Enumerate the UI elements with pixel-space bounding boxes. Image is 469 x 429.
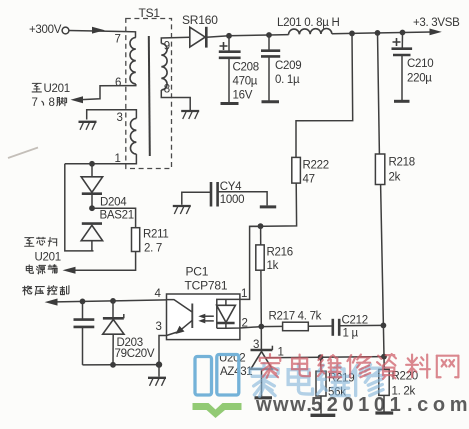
svg-text:PC1: PC1 <box>186 265 209 279</box>
zener D203 79C20V <box>103 301 155 365</box>
node rail/R218 branch <box>375 30 381 36</box>
ground bar C210 <box>394 100 410 103</box>
capacitor CY4 1000 <box>211 181 244 207</box>
wire 稳压控制 line to PC1 pin 4 <box>45 299 167 306</box>
svg-text:C209: C209 <box>275 60 301 72</box>
svg-text:8: 8 <box>49 97 55 109</box>
wire node to ground <box>158 365 160 377</box>
node ref/divider <box>381 354 387 360</box>
wire CY4 left to ground <box>182 192 211 205</box>
svg-text:1: 1 <box>278 347 284 359</box>
svg-text:470µ: 470µ <box>233 76 258 88</box>
svg-text:2k: 2k <box>389 172 401 184</box>
node R216/R222/pin1 junction <box>258 223 264 229</box>
inductor L201 0.8uH <box>277 17 340 35</box>
node D203/bottom rail <box>110 362 116 368</box>
svg-text:8: 8 <box>164 84 170 96</box>
svg-text:47: 47 <box>303 174 315 186</box>
resistor R219 56k <box>316 357 354 398</box>
node +300V input terminal <box>29 24 69 36</box>
svg-text:1 µ: 1 µ <box>343 328 359 340</box>
wire U202 ref to divider <box>266 357 384 358</box>
svg-text:7: 7 <box>32 97 38 109</box>
node D204 midpoint <box>89 205 95 211</box>
svg-text:U201: U201 <box>44 83 70 95</box>
wire bypass left branch <box>65 164 94 251</box>
wire (scan artifact diagonal) <box>8 148 38 159</box>
svg-text:R220: R220 <box>392 371 418 383</box>
wire divider to R220 <box>383 357 385 370</box>
op-amp PC1 TCP781 optocoupler box <box>167 265 240 340</box>
LED box inside PC1 <box>217 299 240 328</box>
svg-text:R218: R218 <box>389 157 415 169</box>
winding pin7-pin6 (primary upper) <box>115 34 136 90</box>
capacitor C208 470u 16V <box>219 36 259 103</box>
wire +300V to TS1 pin 7 <box>69 27 136 38</box>
watermark book logo <box>193 355 242 419</box>
wire pin 1 to D204 node <box>65 154 137 164</box>
svg-text:D204: D204 <box>100 197 127 209</box>
ground bar U202 anode <box>255 396 273 399</box>
capacitor C210 220u <box>392 33 434 101</box>
label 至芯片 U201 电源端 <box>25 237 61 274</box>
label U202 AZ431 <box>219 353 252 379</box>
svg-text:TCP781: TCP781 <box>185 279 228 293</box>
wire R217 to C212 <box>308 325 333 327</box>
svg-text:R211: R211 <box>143 229 168 241</box>
svg-text:520101: 520101 <box>311 394 405 416</box>
node pin2/R216/U202 <box>258 324 264 330</box>
label 至U201 7、8脚 <box>32 83 70 109</box>
wire CY4 right to chassis bar <box>218 192 268 206</box>
LED diode inside PC1 <box>217 299 236 328</box>
transistor U202 AZ431 shunt regulator <box>251 339 284 396</box>
wire divider node down <box>382 325 385 356</box>
svg-text:+300V: +300V <box>29 24 62 36</box>
svg-text:BAS21: BAS21 <box>100 210 134 222</box>
svg-text:R217 4. 7k: R217 4. 7k <box>269 311 322 323</box>
svg-text:L201 0. 8µ H: L201 0. 8µ H <box>277 17 340 29</box>
label D204 BAS21 <box>100 197 134 222</box>
wire R222 to node <box>250 183 297 226</box>
svg-text:.com: .com <box>407 394 469 416</box>
diode SR160 <box>182 13 218 48</box>
resistor R220 1.2k <box>379 369 418 397</box>
wire node to PC1 pin 1 <box>240 226 261 299</box>
svg-text:6: 6 <box>115 77 121 89</box>
wire bottom rail (cap/D203/pin3) <box>83 364 160 366</box>
ground bar C208 <box>221 102 239 105</box>
wire R216 to pin2 node <box>260 270 262 326</box>
winding pin9-pin8 (secondary) <box>161 37 190 95</box>
wire rail to R222 <box>296 33 353 157</box>
resistor R218 2k <box>375 154 414 185</box>
svg-text:U201: U201 <box>35 252 61 264</box>
svg-text:+3. 3VSB: +3. 3VSB <box>413 17 460 29</box>
wire pin 8 to ground <box>161 90 190 110</box>
transistor Q inside PC1 <box>167 300 193 336</box>
node control/cap <box>80 299 86 305</box>
node C212/R218 <box>381 323 387 329</box>
svg-text:3: 3 <box>156 321 162 333</box>
wire pin 6 to U201 arrow <box>71 84 136 103</box>
svg-text:0. 1µ: 0. 1µ <box>275 74 300 86</box>
svg-text:3: 3 <box>117 112 123 124</box>
node control/D203 <box>110 298 116 304</box>
svg-text:1k: 1k <box>267 260 279 272</box>
ground at TS1 pin 8 <box>181 111 199 119</box>
capacitor C209 0.1u <box>261 35 301 101</box>
diode D204a (upper, anode up) <box>81 164 102 208</box>
resistor R216 1k <box>256 226 293 272</box>
transformer TS1 dashed outline <box>126 6 172 169</box>
resistor R222 47 <box>292 157 329 185</box>
svg-text:1000: 1000 <box>220 194 244 206</box>
svg-text:9: 9 <box>164 41 170 53</box>
node rail/C209 <box>266 32 272 38</box>
wire PC1 pin 3 down <box>159 336 167 365</box>
svg-text:7: 7 <box>115 34 121 46</box>
svg-text:SR160: SR160 <box>182 13 218 27</box>
label 稳压控制 <box>23 286 69 295</box>
ground bar R220 <box>375 411 393 414</box>
svg-text:79C20V: 79C20V <box>115 348 155 360</box>
svg-text:2. 7: 2. 7 <box>144 243 162 255</box>
node rail/C210 <box>400 30 406 36</box>
resistor R217 4.7k <box>269 311 322 331</box>
svg-text:16V: 16V <box>233 90 253 102</box>
ground bar C209 <box>262 100 280 103</box>
wire pin 3 to ground <box>87 110 137 124</box>
ground bar R219 <box>311 414 336 417</box>
capacitor (unlabeled) at control line <box>74 301 95 365</box>
svg-text:1: 1 <box>241 288 247 300</box>
watermark red text 家电维修资料网 <box>260 354 459 379</box>
ground at TS1 pin 3 <box>79 122 97 130</box>
node ref/R219 <box>318 354 324 360</box>
node pin3/bottom rail <box>156 361 162 367</box>
wire D204 mid to R211 <box>92 208 136 228</box>
capacitor C212 1u <box>333 315 368 340</box>
wire R218 to C212 node <box>381 185 384 326</box>
transformer TS1 core <box>149 36 150 156</box>
wire rail to R218 <box>378 33 380 154</box>
svg-text:R222: R222 <box>303 160 329 172</box>
chassis bar at CY4 right <box>260 205 276 208</box>
winding pin3-pin1 (primary lower) <box>115 118 137 165</box>
node rail/R222 branch <box>349 31 355 37</box>
node pin1/D204 junction <box>89 161 95 167</box>
svg-text:220µ: 220µ <box>407 73 432 85</box>
wire R219 to ground bar <box>320 396 322 414</box>
wire PC1 pin 2 to R217 <box>226 326 283 328</box>
svg-text:www.: www. <box>255 394 313 416</box>
svg-text:TS1: TS1 <box>139 6 161 20</box>
wire top rail <box>206 17 460 37</box>
resistor R211 2.7 <box>132 228 169 255</box>
light arrows inside PC1 <box>198 314 214 324</box>
ground at CY4 left <box>173 206 191 214</box>
wire R220 to ground bar <box>383 395 385 411</box>
ground at bottom rail <box>148 378 166 386</box>
wire C212 to divider node <box>339 324 383 326</box>
svg-text:C208: C208 <box>233 62 259 74</box>
wire pin2 node to U202 cathode <box>260 327 262 350</box>
svg-text:AZ431: AZ431 <box>220 366 252 378</box>
svg-text:4: 4 <box>155 288 162 300</box>
wire R211 to 电源端 arrow <box>63 252 136 274</box>
svg-text:C210: C210 <box>407 58 433 70</box>
watermark url www.520101.com <box>255 394 469 416</box>
svg-text:R216: R216 <box>267 247 293 259</box>
node rail/C208 <box>226 33 232 39</box>
svg-text:C212: C212 <box>342 315 368 327</box>
diode D204b (lower, cathode up) <box>81 224 102 241</box>
watermark blue text 家电维修 <box>250 364 383 397</box>
